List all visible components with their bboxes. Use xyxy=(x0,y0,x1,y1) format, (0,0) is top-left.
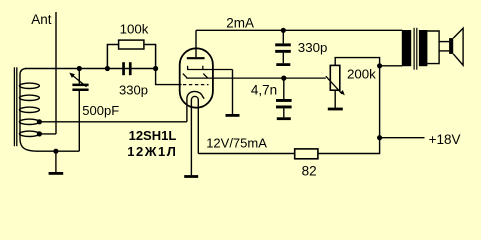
svg-text:12SH1L: 12SH1L xyxy=(129,128,177,143)
node suppressor row / 4,7n xyxy=(281,76,286,81)
potentiometer R2 200k xyxy=(326,58,380,138)
svg-text:Ant: Ant xyxy=(31,12,52,27)
svg-text:12Ж1Л: 12Ж1Л xyxy=(127,144,177,159)
transformer T1 core xyxy=(414,28,417,70)
svg-text:4,7n: 4,7n xyxy=(251,83,277,98)
tube U1 anode xyxy=(187,30,205,58)
svg-text:100k: 100k xyxy=(120,21,149,36)
svg-text:200k: 200k xyxy=(347,66,376,81)
wire transformer primary bottom xyxy=(380,65,403,67)
transformer T1 secondary winding xyxy=(419,30,428,66)
tube U1 suppressor grid (to 4,7n and 200k) xyxy=(183,74,326,79)
wire tap2 to antenna xyxy=(39,133,56,135)
wire cathode return (tap1 to tube cathode) xyxy=(39,121,187,123)
capacitor C4 4,7n xyxy=(276,78,292,117)
tube U1 cathode xyxy=(187,91,204,121)
transformer T1 primary winding xyxy=(402,30,411,66)
svg-text:12V/75mA: 12V/75mA xyxy=(206,135,267,150)
tube U1 envelope xyxy=(180,48,213,107)
svg-text:500pF: 500pF xyxy=(82,103,119,118)
node anode rail / 330p xyxy=(281,28,286,33)
svg-text:330p: 330p xyxy=(119,83,148,98)
wire +18V rail xyxy=(380,137,425,139)
svg-text:2mA: 2mA xyxy=(226,15,254,30)
resistor R1 100k xyxy=(107,40,155,68)
ground (4,7n) xyxy=(277,117,291,120)
coil L1 winding xyxy=(19,68,39,151)
ground (screen) xyxy=(226,114,240,117)
ground (heater) xyxy=(184,175,198,178)
svg-text:330p: 330p xyxy=(298,40,328,55)
tube U1 heater xyxy=(191,96,198,175)
capacitor C2 330p (grid, horizontal) xyxy=(122,62,131,75)
capacitor C3 330p (anode bypass) xyxy=(275,30,291,63)
node junction 500pF xyxy=(77,66,82,71)
coil tap node upper (to cathode) xyxy=(37,119,42,124)
ground (330p bypass) xyxy=(276,63,290,66)
wire anode rail xyxy=(196,29,403,31)
ground (pot) xyxy=(328,108,343,111)
wire main grid line xyxy=(25,68,156,70)
svg-text:82: 82 xyxy=(302,163,317,178)
svg-text:+18V: +18V xyxy=(429,132,461,147)
tube U1 control grid (dashed) xyxy=(183,84,209,86)
resistor R3 82 xyxy=(295,149,318,159)
node junction RC right / grid drop xyxy=(153,66,158,71)
coil tap node lower (to antenna) xyxy=(37,131,42,136)
wire secondary to speaker xyxy=(427,31,449,64)
ground (coil bottom) xyxy=(49,149,64,174)
node primary bottom junction xyxy=(377,63,382,68)
speaker LS1 xyxy=(449,28,463,65)
node junction RC left xyxy=(105,66,110,71)
coil L1 core xyxy=(14,67,16,146)
wire grid input drop xyxy=(156,69,182,85)
tube U1 screen grid xyxy=(187,66,233,70)
wire coil bottom to 500pF xyxy=(37,150,79,152)
screen grid ground drop wire xyxy=(232,70,234,115)
antenna lead wire xyxy=(55,12,57,134)
wire bottom rail (heater supply) xyxy=(198,138,379,154)
node +18V junction xyxy=(377,135,382,140)
variable capacitor C1 500pF xyxy=(69,69,88,152)
